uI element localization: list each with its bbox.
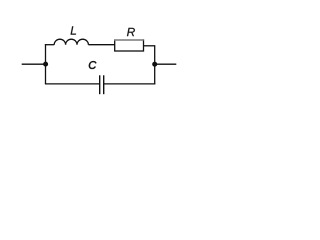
wire left drop to bottom branch [45, 64, 47, 84]
wire resistor to right corner [144, 45, 155, 47]
label L [71, 26, 76, 34]
wire inductor to resistor [88, 44, 114, 46]
capacitor C right plate [103, 75, 105, 94]
right terminal wire [155, 63, 177, 65]
resistor R [115, 40, 144, 51]
label C [89, 61, 96, 69]
capacitor C left plate [99, 75, 101, 94]
wire capacitor to bottom-right [104, 83, 155, 85]
node A junction dot (left) [43, 62, 48, 67]
wire left riser to top branch [45, 44, 47, 64]
wire right riser down to node B [154, 45, 156, 64]
wire right rise from bottom branch [154, 64, 156, 84]
wire bottom-left to capacitor [45, 83, 100, 85]
node B junction dot (right) [152, 62, 157, 67]
left terminal wire [22, 63, 46, 65]
resistor top highlight edge [114, 39, 143, 41]
label R [127, 28, 135, 36]
inductor L [54, 39, 88, 44]
wire top-left to inductor [45, 44, 54, 46]
